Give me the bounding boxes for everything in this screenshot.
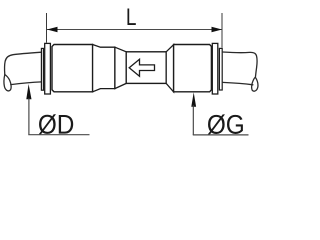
leader OD: label [39, 114, 73, 134]
leader OG: vertical line [192, 105, 194, 135]
leader OD: arrowhead [26, 84, 31, 99]
right tube [223, 52, 258, 91]
leader OD: vertical line [28, 98, 30, 135]
center section [126, 52, 166, 84]
left cone [115, 47, 126, 88]
right washer ring [219, 48, 222, 90]
left washer ring [41, 48, 43, 90]
left body [52, 45, 93, 92]
dimension L: left extension line [46, 13, 48, 43]
leader OD: underline [28, 134, 89, 136]
left tube [4, 52, 42, 91]
dimension L: dimension line [47, 29, 222, 31]
flow arrow [129, 59, 154, 76]
dimension L: right extension line [221, 13, 223, 48]
leader OG: arrowhead [191, 92, 196, 106]
dimension L: right arrowhead [212, 27, 223, 32]
left release button ring [45, 43, 51, 94]
right body [174, 45, 212, 92]
leader OG: label [208, 114, 243, 134]
dimension L: left arrowhead [47, 27, 58, 32]
dimension L: label [127, 8, 135, 25]
leader OG: underline [193, 134, 249, 136]
right cone [166, 45, 173, 92]
right release button ring [212, 43, 218, 94]
left mid section [93, 45, 115, 92]
